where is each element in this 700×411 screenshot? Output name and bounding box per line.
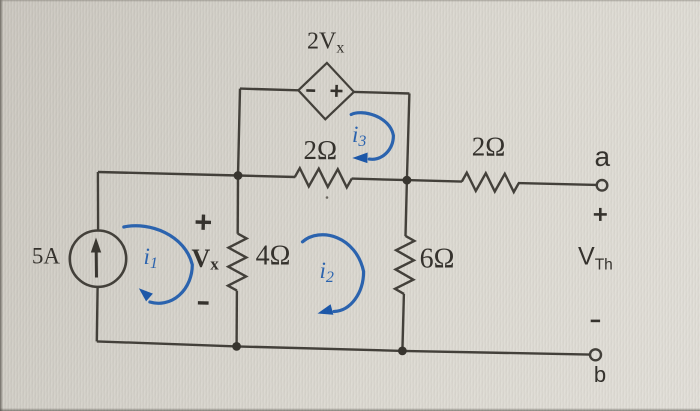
resistor R3 4ohm (vertical)	[228, 233, 247, 290]
wire: left vertical of top loop	[238, 89, 240, 176]
wire: middle rail, R1 to node B	[352, 179, 407, 181]
label: minus sign of Vx	[198, 301, 209, 305]
svg-text:4Ω: 4Ω	[256, 241, 291, 272]
label: plus sign of Vx	[196, 220, 211, 224]
wire: middle rail, left segment (left rail corner to node A)	[98, 172, 238, 176]
resistor R2 2ohm (to terminal a)	[462, 173, 519, 193]
wire: bottom rail, left corner to node C	[97, 341, 237, 346]
wire: R3 down to node C	[235, 291, 238, 347]
mesh current i3 loop arc	[351, 113, 393, 160]
resistor R4 6ohm (vertical)	[395, 236, 415, 294]
label: plus sign inside dependent source	[331, 89, 343, 92]
svg-text:i2: i2	[320, 258, 334, 286]
wire: left rail top (corner to 5A source)	[97, 172, 100, 230]
label: minus sign inside dependent source	[306, 89, 315, 92]
current source I1: 5A circle	[70, 231, 126, 287]
wire: right vertical of top loop	[407, 94, 410, 181]
wire: node A down to 4-ohm resistor R3	[236, 176, 239, 234]
stray ink dot below R1	[326, 196, 329, 199]
svg-text:Vx: Vx	[192, 244, 220, 274]
wire: top rail left (corner above node A to dependent source)	[240, 89, 299, 91]
svg-text:b: b	[594, 362, 606, 387]
svg-text:VTh: VTh	[578, 242, 613, 273]
wire: top rail right (dependent source to corner above node B)	[354, 92, 410, 94]
current source I1: arrow head	[91, 238, 101, 253]
node A junction dot	[234, 171, 243, 180]
svg-text:5A: 5A	[32, 244, 61, 269]
wire: R2 to terminal a	[518, 183, 597, 185]
svg-text:i1: i1	[144, 244, 158, 272]
wire: left rail bottom (5A source to bottom corner)	[96, 287, 99, 341]
mesh current i1 arrow head	[139, 288, 153, 301]
wire: node B down to 6-ohm resistor R4	[406, 180, 407, 236]
mesh current i2 arrow head	[318, 304, 334, 314]
terminal a open circle	[597, 180, 608, 191]
mesh current i2 loop arc	[303, 235, 364, 312]
mesh current i1 loop arc	[124, 226, 193, 304]
mesh current i3 arrow head	[352, 153, 367, 164]
dependent source U1: diamond 2Vx	[298, 63, 354, 119]
svg-text:2Ω: 2Ω	[304, 135, 338, 165]
node C junction dot	[232, 342, 241, 351]
wire: R4 down to node D	[402, 294, 404, 351]
node B junction dot	[403, 176, 412, 185]
label: minus sign of VTh	[591, 320, 600, 323]
current source I1: arrow shaft	[95, 252, 98, 278]
label: plus sign of VTh	[594, 213, 607, 216]
svg-text:i3: i3	[352, 122, 366, 150]
wire: bottom rail, node C to node D	[237, 346, 403, 351]
svg-text:2Vx: 2Vx	[307, 29, 344, 57]
terminal b open circle	[590, 349, 601, 360]
wire: bottom rail, node D to terminal b	[402, 351, 590, 355]
svg-text:2Ω: 2Ω	[472, 132, 506, 162]
svg-text:6Ω: 6Ω	[420, 244, 455, 275]
wire: middle rail, node B to 2-ohm resistor R2	[407, 180, 462, 182]
node D junction dot	[398, 347, 407, 356]
resistor R1 2ohm (middle rail)	[295, 168, 352, 188]
wire: middle rail, node A to 2-ohm resistor R1	[238, 176, 295, 178]
svg-text:a: a	[595, 141, 611, 172]
